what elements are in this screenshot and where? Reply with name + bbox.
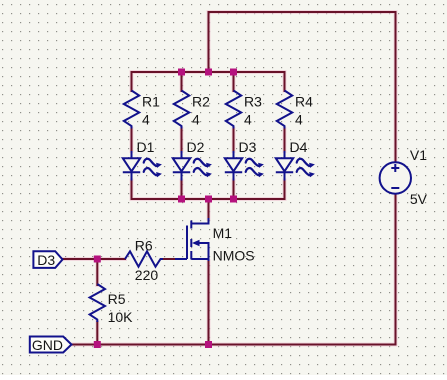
svg-text:R2: R2 [192, 94, 210, 110]
wire top rail of LED array [132, 71, 285, 73]
svg-text:V1: V1 [410, 147, 427, 163]
resistor R6 [125, 238, 163, 284]
wire R5 bottom lead [96, 322, 98, 345]
voltage source V1 [380, 147, 428, 207]
resistor R1 [124, 91, 160, 129]
svg-text:D3: D3 [239, 139, 257, 155]
wire branch 3 segments [233, 72, 235, 199]
svg-text:D1: D1 [137, 139, 155, 155]
resistor R2 [174, 91, 210, 129]
wire D3 to R6 [63, 258, 126, 260]
wire branch 4 segments [284, 72, 286, 199]
svg-text:R5: R5 [108, 291, 126, 307]
junction at 181.5,72 [178, 69, 185, 76]
svg-text:4: 4 [192, 112, 200, 128]
resistor R4 [277, 91, 313, 129]
svg-text:5V: 5V [410, 191, 428, 207]
svg-text:GND: GND [32, 337, 63, 353]
svg-text:R3: R3 [244, 94, 262, 110]
wire branch 2 segments [181, 72, 183, 199]
svg-text:D3: D3 [37, 252, 55, 268]
svg-text:NMOS: NMOS [213, 248, 255, 264]
wire branch 1 segments [131, 72, 133, 199]
junction at 208.5,344.5 [205, 341, 212, 348]
svg-text:R6: R6 [135, 238, 153, 254]
wire top feed to V+ rail [209, 12, 396, 163]
svg-text:D2: D2 [187, 139, 205, 155]
svg-text:4: 4 [142, 112, 150, 128]
wire V1 bottom to ground rail [395, 194, 397, 345]
svg-text:220: 220 [135, 267, 159, 283]
resistor R5 [90, 284, 134, 325]
resistor R3 [226, 91, 262, 129]
LED D3 [225, 139, 264, 181]
LED D2 [173, 139, 212, 181]
wire bottom rail of LED array [132, 198, 285, 200]
LED D4 [276, 139, 315, 181]
junction at 97.3,259 [94, 256, 101, 263]
svg-text:R1: R1 [142, 94, 160, 110]
node D3 input flag [33, 251, 62, 268]
node GND flag [30, 337, 72, 353]
wire drain [208, 199, 210, 219]
wire ground rail [72, 344, 396, 346]
junction at 208.5,199 [205, 196, 212, 203]
wire R6 to gate [163, 258, 175, 260]
junction at 181.5,199 [178, 196, 185, 203]
wire glow [63, 12, 396, 345]
LED D1 [123, 139, 162, 181]
svg-text:R4: R4 [295, 94, 313, 110]
svg-text:4: 4 [295, 112, 303, 128]
svg-text:4: 4 [244, 112, 252, 128]
junction at 233.5,72 [230, 69, 237, 76]
junction at 97.3,344.5 [94, 341, 101, 348]
transistor M1 NMOS [175, 218, 255, 264]
junction at 233.5,199 [230, 196, 237, 203]
svg-text:D4: D4 [290, 139, 308, 155]
svg-text:M1: M1 [213, 225, 233, 241]
wire R5 top lead [96, 259, 98, 285]
svg-text:10K: 10K [108, 309, 134, 325]
junction at 208.5,72 [205, 69, 212, 76]
wire source to ground rail [208, 261, 210, 345]
